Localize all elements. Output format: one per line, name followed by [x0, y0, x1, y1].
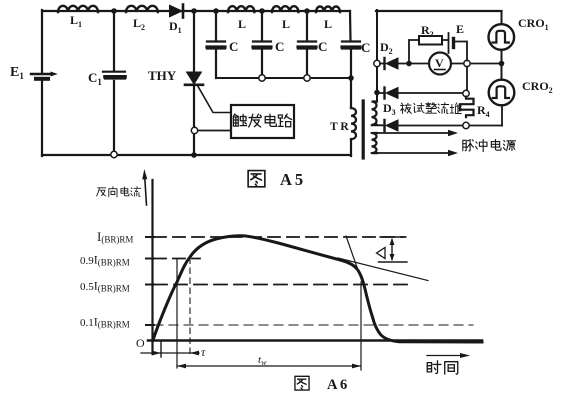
- svg-text:L2: L2: [133, 16, 145, 32]
- dimension t line: [141, 351, 199, 356]
- svg-text:E: E: [456, 22, 464, 36]
- diode D3a: [385, 88, 399, 99]
- wire E1 left branch: [41, 10, 43, 156]
- oscilloscope CRO1: [489, 11, 515, 50]
- svg-text:A6: A6: [327, 377, 350, 393]
- svg-text:0.1I(BR)RM: 0.1I(BR)RM: [80, 315, 130, 330]
- wire CRO1 to CRO2: [501, 50, 503, 80]
- dashed level 0.1: [154, 324, 473, 326]
- svg-text:CRO1: CRO1: [518, 16, 549, 32]
- svg-text:O: O: [136, 336, 145, 350]
- tick small origin: [160, 342, 162, 357]
- wire top rail: [42, 10, 350, 12]
- battery E1: [31, 72, 58, 79]
- tangent line shallow: [338, 258, 428, 281]
- dimension tw line: [177, 364, 361, 369]
- node junction ladder rail right: [348, 75, 354, 81]
- node open circle R4 bottom: [463, 122, 469, 128]
- capacitor C (2nd ladder): [253, 11, 271, 75]
- axis tick 0.5: [146, 284, 154, 286]
- y axis: [151, 180, 153, 354]
- svg-text:L: L: [238, 17, 246, 31]
- svg-text:R4: R4: [477, 103, 490, 119]
- transformer core: [362, 101, 365, 158]
- wire row3: [372, 124, 503, 126]
- wire THY branch: [193, 11, 195, 155]
- wire row2: [380, 92, 463, 94]
- wire CRO2 bottom: [501, 106, 503, 126]
- svg-text:I(BR)RM: I(BR)RM: [97, 229, 133, 245]
- svg-text:D1: D1: [169, 19, 182, 35]
- node open circle row1 E-tap: [464, 60, 470, 66]
- svg-text:L: L: [324, 17, 332, 31]
- wire R2-E branch: [409, 40, 467, 90]
- dashed level 0.5: [154, 284, 411, 286]
- node junction THY bottom: [191, 152, 197, 158]
- dashed level I(BR)RM: [154, 236, 404, 238]
- trigger circuit box: [231, 105, 294, 138]
- node open circle ladder rail 1: [259, 75, 265, 81]
- svg-text:0.9I(BR)RM: 0.9I(BR)RM: [80, 253, 130, 268]
- node junction ladder tap 1: [213, 8, 219, 14]
- svg-text:V: V: [435, 56, 444, 70]
- wire right bus vertical: [376, 10, 378, 102]
- transformer TR primary winding: [351, 108, 356, 139]
- resistor R4: [460, 97, 474, 118]
- capacitor C (4th, series right): [342, 11, 360, 78]
- transformer TR secondary winding A: [372, 102, 378, 125]
- label rectifier under test: [400, 103, 461, 114]
- svg-text:C1: C1: [88, 70, 102, 87]
- x axis arrow: [427, 353, 470, 358]
- inductor L (3rd ladder): [316, 7, 340, 12]
- wire trigger box to THY: [198, 130, 231, 132]
- wire pulse source bottom with arrow: [372, 150, 459, 156]
- thin vertical tw right: [360, 282, 362, 370]
- label pulse power source: [463, 139, 516, 151]
- wire right top rail: [376, 10, 502, 12]
- svg-text:CRO2: CRO2: [522, 79, 553, 95]
- node open circle ladder rail 2: [304, 75, 310, 81]
- diode D3b: [385, 120, 399, 131]
- wire ladder bottom rail: [216, 77, 351, 78]
- node junction CRO row1: [499, 61, 505, 67]
- thyristor THY: [185, 72, 231, 113]
- inductor L2: [126, 6, 158, 12]
- svg-text:R2: R2: [421, 23, 434, 39]
- node open circle bus row1: [374, 60, 380, 66]
- wire to transformer primary: [350, 78, 352, 108]
- svg-text:T R: T R: [330, 121, 349, 133]
- svg-text:τ: τ: [201, 345, 206, 359]
- delta dimension double arrow: [390, 238, 395, 261]
- svg-text:D2: D2: [380, 40, 393, 56]
- node junction ladder tap 2: [259, 8, 265, 14]
- node open circle THY gate return: [191, 127, 197, 133]
- delta triangle glyph: [377, 248, 386, 259]
- node junction ladder tap 3: [304, 8, 310, 14]
- svg-text:L1: L1: [70, 13, 82, 29]
- dashed level 0.9: [154, 258, 200, 260]
- wire pulse source top with arrow: [372, 130, 459, 136]
- wire bottom rail: [42, 154, 351, 156]
- delta dimension bars: [379, 237, 408, 262]
- svg-text:THY: THY: [148, 68, 177, 83]
- svg-text:C: C: [361, 40, 370, 55]
- inductor L (2nd ladder): [272, 6, 298, 12]
- svg-text:D3: D3: [383, 101, 396, 117]
- y axis arrow: [142, 169, 147, 205]
- resistor R2: [419, 36, 442, 45]
- node open circle R4 top: [463, 90, 469, 96]
- voltmeter V: [429, 53, 451, 75]
- curve reverse recovery: [153, 236, 482, 342]
- label reverse current: [97, 187, 141, 197]
- inductor L (1st ladder): [228, 6, 254, 12]
- capacitor C (3rd ladder): [298, 11, 316, 75]
- wire primary to bottom rail: [350, 139, 352, 156]
- thin vertical tw left: [176, 259, 178, 368]
- node junction top of C1: [111, 8, 117, 14]
- svg-text:C: C: [318, 39, 327, 54]
- node junction bus row2: [374, 90, 380, 96]
- oscilloscope CRO2: [489, 80, 515, 106]
- wire row1: [380, 63, 502, 65]
- svg-text:tw: tw: [258, 354, 267, 367]
- label trigger circuit text: [233, 114, 291, 127]
- node junction row1: [406, 61, 412, 67]
- svg-text:A5: A5: [280, 170, 306, 189]
- dashed vertical t marker: [189, 258, 191, 356]
- inductor L1: [58, 6, 98, 12]
- svg-text:C: C: [229, 39, 238, 54]
- transformer TR secondary winding B: [372, 133, 378, 153]
- x axis: [148, 339, 482, 342]
- capacitor C1: [103, 10, 125, 151]
- caption fig A6: [295, 376, 309, 390]
- battery E: [448, 33, 450, 53]
- svg-text:C: C: [275, 39, 284, 54]
- axis tick 0.9: [146, 258, 154, 260]
- node open circle C1 bottom: [111, 151, 117, 157]
- axis tick 0.1: [146, 324, 154, 326]
- diode D1: [170, 5, 184, 18]
- axis tick I(BR)RM: [146, 236, 154, 238]
- diode D2: [385, 58, 399, 69]
- capacitor C (1st ladder): [207, 11, 225, 78]
- svg-text:0.5I(BR)RM: 0.5I(BR)RM: [80, 279, 130, 294]
- caption fig A5: [248, 171, 265, 187]
- svg-text:L: L: [282, 17, 290, 31]
- svg-text:E1: E1: [10, 65, 24, 81]
- label time: [427, 361, 458, 374]
- tangent line steep: [346, 236, 358, 270]
- node junction THY top: [191, 8, 197, 14]
